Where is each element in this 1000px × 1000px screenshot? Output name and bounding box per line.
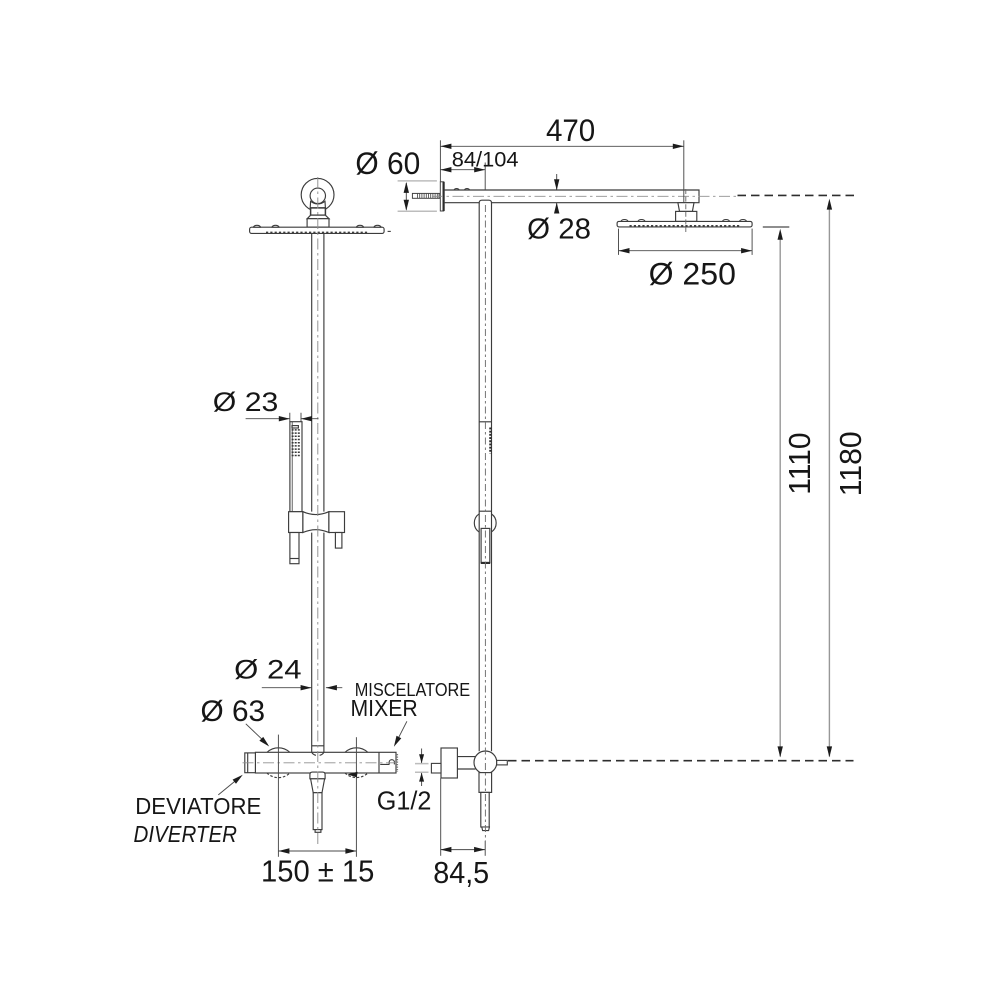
- arrow 1110 down: [778, 746, 783, 757]
- leader d63: [246, 724, 268, 745]
- front view: top swivel ring outer: [301, 178, 334, 211]
- front view: lower nut block: [307, 219, 329, 228]
- front view: slider middle waist: [303, 512, 329, 533]
- dim 1110 top tick: [763, 226, 790, 228]
- side view: lower spout pipe: [481, 792, 489, 827]
- dim 470 line: [440, 145, 683, 147]
- side view: head ball nut: [678, 203, 694, 212]
- side view: hand shower face hatch: [489, 428, 491, 454]
- front view: upper nut: [311, 208, 326, 215]
- centerline: arm axis: [432, 195, 737, 197]
- arrow 84/104 left: [440, 167, 451, 172]
- svg-text:1180: 1180: [833, 431, 868, 496]
- side view: holder ball right arc: [491, 514, 496, 532]
- dim 84,5 extension left: [440, 778, 442, 856]
- svg-text:Ø 24: Ø 24: [234, 655, 302, 685]
- arrow leader mixer: [394, 736, 401, 747]
- reference dashed line bottom: [508, 760, 854, 762]
- side view: column seam: [479, 421, 491, 423]
- front view: overhead shower plate: [250, 227, 385, 233]
- light gray ticks g12: [415, 764, 429, 773]
- front view: swivel ball inner: [310, 188, 325, 203]
- side view: wall flange: [440, 182, 443, 211]
- front view: handle cap line: [290, 558, 299, 560]
- side view: holder knob: [481, 528, 490, 562]
- svg-text:1110: 1110: [782, 432, 817, 494]
- front view: right flange top arc: [345, 748, 368, 752]
- side view: column right edge: [491, 203, 493, 751]
- side view: shower arm: [444, 189, 699, 203]
- dim d60 arrow shaft: [405, 183, 407, 210]
- svg-text:84,5: 84,5: [433, 855, 489, 890]
- front view: inlet pipe bell tip: [312, 752, 324, 755]
- svg-text:MIXER: MIXER: [351, 695, 418, 721]
- front view: slider left block: [289, 512, 303, 533]
- side view: holder ball left arc: [474, 514, 479, 532]
- arrow leader d63: [259, 737, 269, 747]
- dim 1180 vertical line: [828, 202, 830, 757]
- arrow g12 up: [419, 773, 424, 782]
- svg-text:Ø 60: Ø 60: [355, 145, 420, 181]
- dim 470 extension left: [439, 140, 441, 181]
- side view: head connector block: [676, 211, 697, 221]
- front view: slider right block: [329, 512, 345, 533]
- dim d23 extensions: [290, 413, 301, 422]
- dim 84/104 line: [440, 169, 485, 171]
- dim d250 extension left: [618, 229, 620, 255]
- front view: spout taper: [311, 779, 325, 793]
- dim d28 shaft bottom: [556, 203, 558, 214]
- arrow d28 up: [554, 203, 559, 214]
- light gray ticks d60: [398, 181, 437, 211]
- svg-text:Ø 28: Ø 28: [527, 213, 591, 245]
- arrow 84/104 right: [474, 167, 485, 172]
- front view: ball clamp neck: [310, 201, 325, 208]
- svg-text:Ø 250: Ø 250: [649, 256, 736, 292]
- centerline: front mixer body: [243, 762, 401, 764]
- side view: below circle block: [479, 773, 492, 793]
- front view: mixer right detail: [380, 760, 394, 765]
- front view: hand shower spray hatch: [292, 430, 301, 456]
- arrow 1110 up: [778, 229, 783, 240]
- front view: flare transition: [307, 215, 329, 219]
- front view: hand shower inner line: [291, 422, 293, 512]
- svg-text:DIVERTER: DIVERTER: [134, 821, 238, 847]
- side view: mixer right outlet stub: [497, 760, 508, 765]
- arrow 84,5 right: [474, 847, 485, 852]
- dim 150 line: [278, 850, 356, 852]
- dim d250 extension right: [751, 229, 753, 255]
- arrow g12 down: [419, 754, 424, 763]
- side view: mixer horizontal pipe: [457, 757, 475, 769]
- dim d28 shaft top: [556, 174, 558, 190]
- centerline: front column: [317, 177, 319, 845]
- side view: mixer square bracket: [441, 748, 457, 778]
- centerline: side column: [484, 205, 486, 841]
- side view: wall inlet stub: [412, 193, 440, 198]
- arrow 150 right: [345, 848, 356, 853]
- arrow d24 right-point: [301, 685, 312, 690]
- side view: holder seam: [479, 510, 491, 512]
- dim d24 line: [262, 687, 343, 689]
- side view: head plate screw bumps: [621, 220, 747, 222]
- arrow d23 left-point: [301, 416, 312, 421]
- front view: spout cap: [310, 772, 325, 779]
- svg-text:470: 470: [546, 112, 595, 148]
- arrow 84,5 left: [440, 847, 451, 852]
- arrow d250 right: [741, 248, 752, 253]
- dim 470 extension right: [683, 140, 685, 202]
- side view: head nozzle row: [630, 225, 741, 227]
- side view: head centerline: [685, 189, 687, 234]
- front view: plate screw bumps: [254, 225, 382, 227]
- front view: hand shower hang hole: [292, 426, 298, 428]
- front view: hand shower body: [290, 422, 302, 512]
- front view: slider knob: [335, 533, 342, 549]
- dim 150 extension left: [277, 735, 279, 857]
- arrow d28 down: [554, 179, 559, 190]
- svg-text:Ø 63: Ø 63: [201, 695, 266, 728]
- dim G1/2 shafts: [421, 749, 423, 787]
- dim d250 line: [619, 250, 753, 252]
- arrow d24 left-point: [326, 685, 337, 690]
- side view: mixer connector circle: [474, 751, 497, 774]
- front view: mixer right edge hatch: [396, 754, 398, 772]
- svg-text:150 ± 15: 150 ± 15: [261, 854, 374, 889]
- dim 150 extension right: [355, 737, 357, 857]
- front view: column tube right edge: [323, 233, 325, 752]
- arrow 470 left: [440, 144, 451, 149]
- dim 84,5 extension right: [484, 841, 486, 856]
- front view: right flange bottom arc: [345, 773, 368, 778]
- front view: mixer body: [255, 752, 396, 773]
- arrow d60 up: [404, 182, 409, 193]
- arrow leader g12: [347, 772, 357, 778]
- front view: left flange top arc: [267, 748, 290, 752]
- svg-text:DEVIATORE: DEVIATORE: [135, 793, 261, 819]
- dim d23 line: [246, 418, 319, 420]
- dim 84/104 extension: [484, 163, 486, 190]
- front view: hand shower handle below slider: [290, 533, 299, 564]
- front view: mixer inlet joint: [312, 745, 324, 747]
- front view: mixer right section line: [378, 752, 380, 773]
- front view: left flange bottom arc: [267, 773, 290, 778]
- arrow d60 down: [404, 200, 409, 211]
- arrow 1180 down: [827, 746, 832, 757]
- arrow d23 right-point: [279, 416, 290, 421]
- svg-text:84/104: 84/104: [452, 147, 519, 171]
- arrow 150 left: [278, 848, 289, 853]
- side view: column left edge: [478, 203, 480, 751]
- leader mixer: [396, 721, 407, 743]
- front view: plate nozzle row: [266, 231, 368, 233]
- front view: mixer left end cap: [245, 753, 256, 773]
- arrow 1180 up: [827, 199, 832, 210]
- leader deviatore: [218, 777, 240, 795]
- front view: column tube left edge: [311, 233, 313, 752]
- side view: lower spout tip: [482, 827, 490, 831]
- dim 84,5 line: [440, 849, 485, 851]
- front view: dash right of plate: [388, 230, 391, 232]
- dim 1110 vertical line: [779, 234, 781, 757]
- arrow 470 right: [673, 144, 684, 149]
- side view: head plate: [617, 221, 752, 227]
- side view: mixer wall stub: [431, 763, 441, 773]
- arrow leader deviatore: [233, 775, 243, 784]
- arrow d250 left: [619, 248, 630, 253]
- svg-text:G1/2: G1/2: [377, 785, 432, 815]
- side view: column top shoulder: [479, 200, 491, 203]
- reference dashed line top: [738, 194, 859, 196]
- svg-text:Ø 23: Ø 23: [213, 387, 279, 417]
- front view: spout pipe: [313, 793, 322, 830]
- side view: holder knob cap: [481, 562, 491, 564]
- front view: spout tip: [315, 830, 321, 833]
- arrowheads: [233, 144, 833, 854]
